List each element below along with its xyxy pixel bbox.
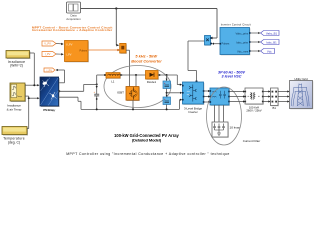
wire Irradiance to PV: [25, 53, 40, 129]
svg-text:10 kvar: 10 kvar: [230, 126, 240, 130]
utility grid block: [290, 77, 314, 110]
svg-text:Pulses: Pulses: [222, 42, 230, 46]
MPPT header annotation text: [32, 25, 113, 32]
capacitor bank block: [212, 122, 240, 138]
wire pulses from multiply to bridge: [188, 41, 205, 82]
svg-text:Acquisition: Acquisition: [66, 17, 81, 21]
goto tag Iabc_B1: [251, 40, 279, 45]
svg-text:B1: B1: [272, 106, 276, 110]
DC link capacitor C1: [163, 75, 171, 89]
wire top rail from Data Acquisition: [81, 7, 218, 46]
svg-text:+: +: [94, 90, 96, 94]
diode Diode1: [146, 71, 183, 86]
svg-text:Boost Converter: Boost Converter: [131, 59, 162, 64]
svg-text:3 level VSC: 3 level VSC: [222, 75, 242, 79]
inductor L1: [106, 73, 146, 87]
svg-text:I_PV: I_PV: [66, 54, 72, 57]
title text: [114, 133, 179, 143]
svg-text:Inverter Control Circuit: Inverter Control Circuit: [221, 24, 251, 27]
transformer block: [245, 88, 264, 113]
svg-text:L1: L1: [111, 79, 115, 83]
input capacitor: [94, 84, 100, 110]
svg-text:Vdc: Vdc: [267, 49, 272, 53]
svg-text:Vabc_B1: Vabc_B1: [266, 31, 278, 35]
svg-text:Iabc_prim: Iabc_prim: [236, 40, 249, 44]
multiply block (flipped product): [205, 36, 213, 46]
svg-text:I_PV: I_PV: [46, 69, 52, 72]
svg-text:Vabc_prim: Vabc_prim: [236, 31, 249, 35]
goto tag Vdc: [251, 49, 275, 54]
signal source block Temperature (deg. C): [2, 127, 28, 145]
svg-text:PV Array: PV Array: [43, 108, 54, 112]
svg-text:Diode1: Diode1: [147, 80, 157, 84]
wires transformer to B1: [264, 90, 271, 102]
Data Acquisition block: [66, 2, 81, 21]
From tag V_PV: [42, 41, 64, 46]
svg-text:(W/m^2): (W/m^2): [10, 64, 23, 68]
svg-text:V_PV: V_PV: [44, 42, 51, 46]
gain / saturation block: [120, 43, 130, 87]
svg-text:(Detailed Model): (Detailed Model): [132, 138, 162, 143]
svg-text:Current Filter: Current Filter: [243, 139, 261, 143]
From tag I_PV: [42, 52, 64, 57]
3-level bridge inverter block: [182, 82, 204, 114]
MPPT controller block: [65, 41, 89, 63]
wire MPPT Pulses to gain: [88, 49, 120, 51]
signal builder Irradiance & air Temp: [7, 83, 26, 111]
svg-text:MPPT Controller using "Increm: MPPT Controller using "Incremental Condu…: [66, 152, 230, 156]
3-phase wires bridge to LC filter: [204, 91, 209, 102]
signal source block Irradiance (W/m^2): [6, 51, 31, 68]
svg-text:Inverter: Inverter: [188, 110, 198, 114]
boost converter ellipse annotation: [104, 66, 171, 108]
wire PV- to bottom rail: [59, 97, 183, 109]
annotation 5 kHz boost: [131, 54, 162, 64]
measurement block B1: [271, 88, 279, 110]
svg-text:260V / 25kV: 260V / 25kV: [246, 109, 261, 113]
wires B1 to utility grid: [278, 90, 290, 102]
svg-text:Iabc_B1: Iabc_B1: [266, 40, 277, 44]
svg-text:IGBT: IGBT: [117, 91, 124, 95]
VSC annotation text: [218, 71, 245, 79]
LC filter block: [210, 88, 230, 106]
svg-text:Vdc_mes: Vdc_mes: [237, 49, 249, 53]
inverter control circuit block: [212, 28, 251, 56]
Goto tag I_PV (PV measurement): [44, 68, 65, 83]
PV Array block: [40, 77, 60, 112]
DC link capacitor C2: [163, 89, 182, 111]
wires LC filter to transformer: [230, 90, 246, 102]
svg-text:Incremental Conductance + Adap: Incremental Conductance + Adaptive Contr…: [32, 28, 113, 32]
current filter ellipse annotation: [207, 87, 242, 145]
transistor IGBT: [117, 87, 140, 111]
wire PV+ to boost top rail: [58, 74, 106, 92]
svg-text:(deg. C): (deg. C): [8, 141, 20, 145]
svg-text:I_PV: I_PV: [45, 52, 51, 56]
svg-text:& air Temp: & air Temp: [7, 107, 22, 111]
goto tag Vabc_B1: [251, 31, 279, 36]
svg-text:Pulses: Pulses: [79, 50, 87, 53]
svg-text:V_PV: V_PV: [66, 43, 73, 46]
wires LC filter down to capacitor bank: [215, 105, 224, 122]
